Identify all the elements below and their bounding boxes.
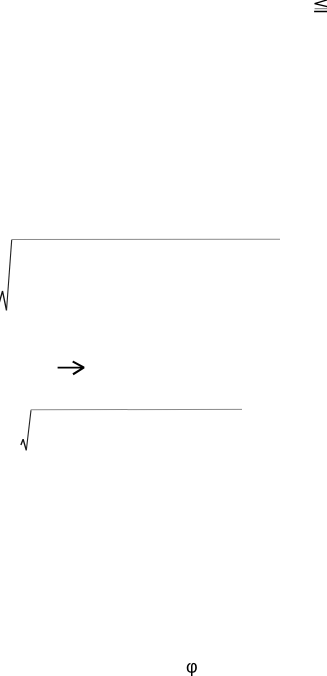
radical 2 vinculum (overline) — [31, 408, 242, 410]
greek letter phi (bottom, clipped) — [187, 663, 197, 676]
radical sign 1 (tall surd, left) — [0, 240, 12, 311]
rightwards arrow — [58, 362, 84, 375]
radical sign 2 (short surd) — [21, 410, 31, 450]
less-than-over-double-bar symbol (top right, clipped) — [314, 0, 327, 11]
radical 1 vinculum (overline) — [11, 238, 280, 240]
